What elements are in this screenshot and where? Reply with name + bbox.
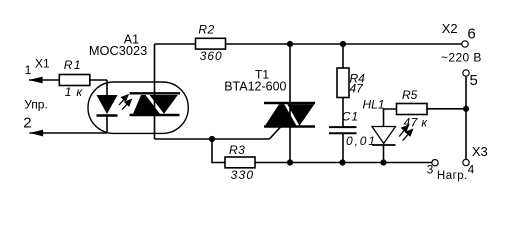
svg-text:5: 5 — [470, 72, 478, 89]
svg-text:HL1: HL1 — [363, 98, 385, 112]
svg-text:1 к: 1 к — [65, 85, 84, 99]
connector X1 pin2 arrow — [30, 130, 44, 137]
svg-text:6: 6 — [467, 25, 475, 42]
svg-text:47 к: 47 к — [404, 116, 429, 130]
svg-text:R5: R5 — [402, 88, 418, 102]
wire R5 right to X2 pin5 line — [427, 108, 466, 110]
svg-text:R2: R2 — [198, 23, 214, 37]
svg-text:330: 330 — [231, 168, 255, 182]
svg-text:1: 1 — [25, 63, 32, 77]
svg-text:X3: X3 — [472, 144, 488, 159]
connector X1 pin1 arrow — [29, 77, 43, 84]
svg-text:~220 В: ~220 В — [441, 50, 482, 64]
svg-text:0,01: 0,01 — [346, 134, 377, 148]
opto photo-triac — [130, 93, 181, 115]
svg-text:360: 360 — [200, 49, 223, 63]
wire T1 vertical — [289, 44, 291, 163]
HL1 emission arrows — [399, 126, 412, 141]
svg-text:Нагр.: Нагр. — [437, 170, 468, 182]
resistor R2 — [196, 38, 226, 49]
svg-text:R3: R3 — [229, 143, 245, 157]
wire pin2 — [30, 132, 108, 134]
wire R1 to LED anode corner — [90, 79, 107, 81]
wire LED anode vertical — [106, 80, 108, 96]
resistor R3 — [225, 157, 255, 168]
svg-text:X2: X2 — [442, 21, 458, 36]
svg-text:2: 2 — [23, 114, 31, 131]
wire pin1 to R1 — [29, 79, 59, 81]
svg-text:C1: C1 — [342, 110, 359, 124]
wire junction to triac gate horizontal — [212, 138, 269, 140]
terminal X3 pin3 — [432, 160, 438, 166]
LED HL1 — [372, 127, 396, 146]
svg-text:MOC3023: MOC3023 — [89, 43, 147, 58]
wire LED cathode vertical — [106, 115, 108, 134]
wire C1 bottom to rail — [342, 134, 344, 163]
wire right vertical pin5 to pin4 — [465, 76, 467, 159]
triac T1 — [264, 103, 315, 127]
svg-text:Упр.: Упр. — [24, 97, 48, 111]
light arrows — [119, 95, 131, 110]
wire triac T1 gate diagonal — [269, 127, 281, 140]
opto LED — [97, 95, 118, 116]
svg-text:R1: R1 — [64, 58, 82, 72]
resistor R1 — [59, 75, 90, 86]
wire HL1 cathode to rail — [383, 145, 385, 163]
wire top rail from opto to R2 — [155, 43, 196, 45]
capacitor C1 — [329, 127, 357, 133]
wire R3 to bottom rail to pin3 — [255, 162, 432, 164]
svg-text:4: 4 — [468, 162, 475, 176]
wire R4 top — [342, 44, 344, 68]
junction dots — [287, 41, 293, 47]
terminal X2 pin6 — [462, 41, 468, 47]
optocoupler A1 body outline — [88, 82, 188, 133]
svg-text:47: 47 — [350, 82, 365, 96]
svg-text:X1: X1 — [35, 57, 50, 71]
resistor R5 — [397, 104, 428, 115]
terminal X2 pin5 — [463, 70, 469, 76]
wire HL1 top to R5 — [384, 109, 397, 127]
resistor R4 — [337, 68, 349, 98]
svg-text:3: 3 — [427, 163, 434, 177]
wire optocoupler output vertical — [154, 44, 156, 139]
wire top rail right segment — [226, 43, 462, 45]
wire opto triac bottom to junction — [155, 138, 213, 140]
svg-text:BTA12-600: BTA12-600 — [224, 80, 286, 94]
wire junction down to R3 — [212, 139, 225, 163]
terminal X3 pin4 — [463, 159, 469, 165]
wire R4 bottom to C1 — [342, 98, 344, 127]
